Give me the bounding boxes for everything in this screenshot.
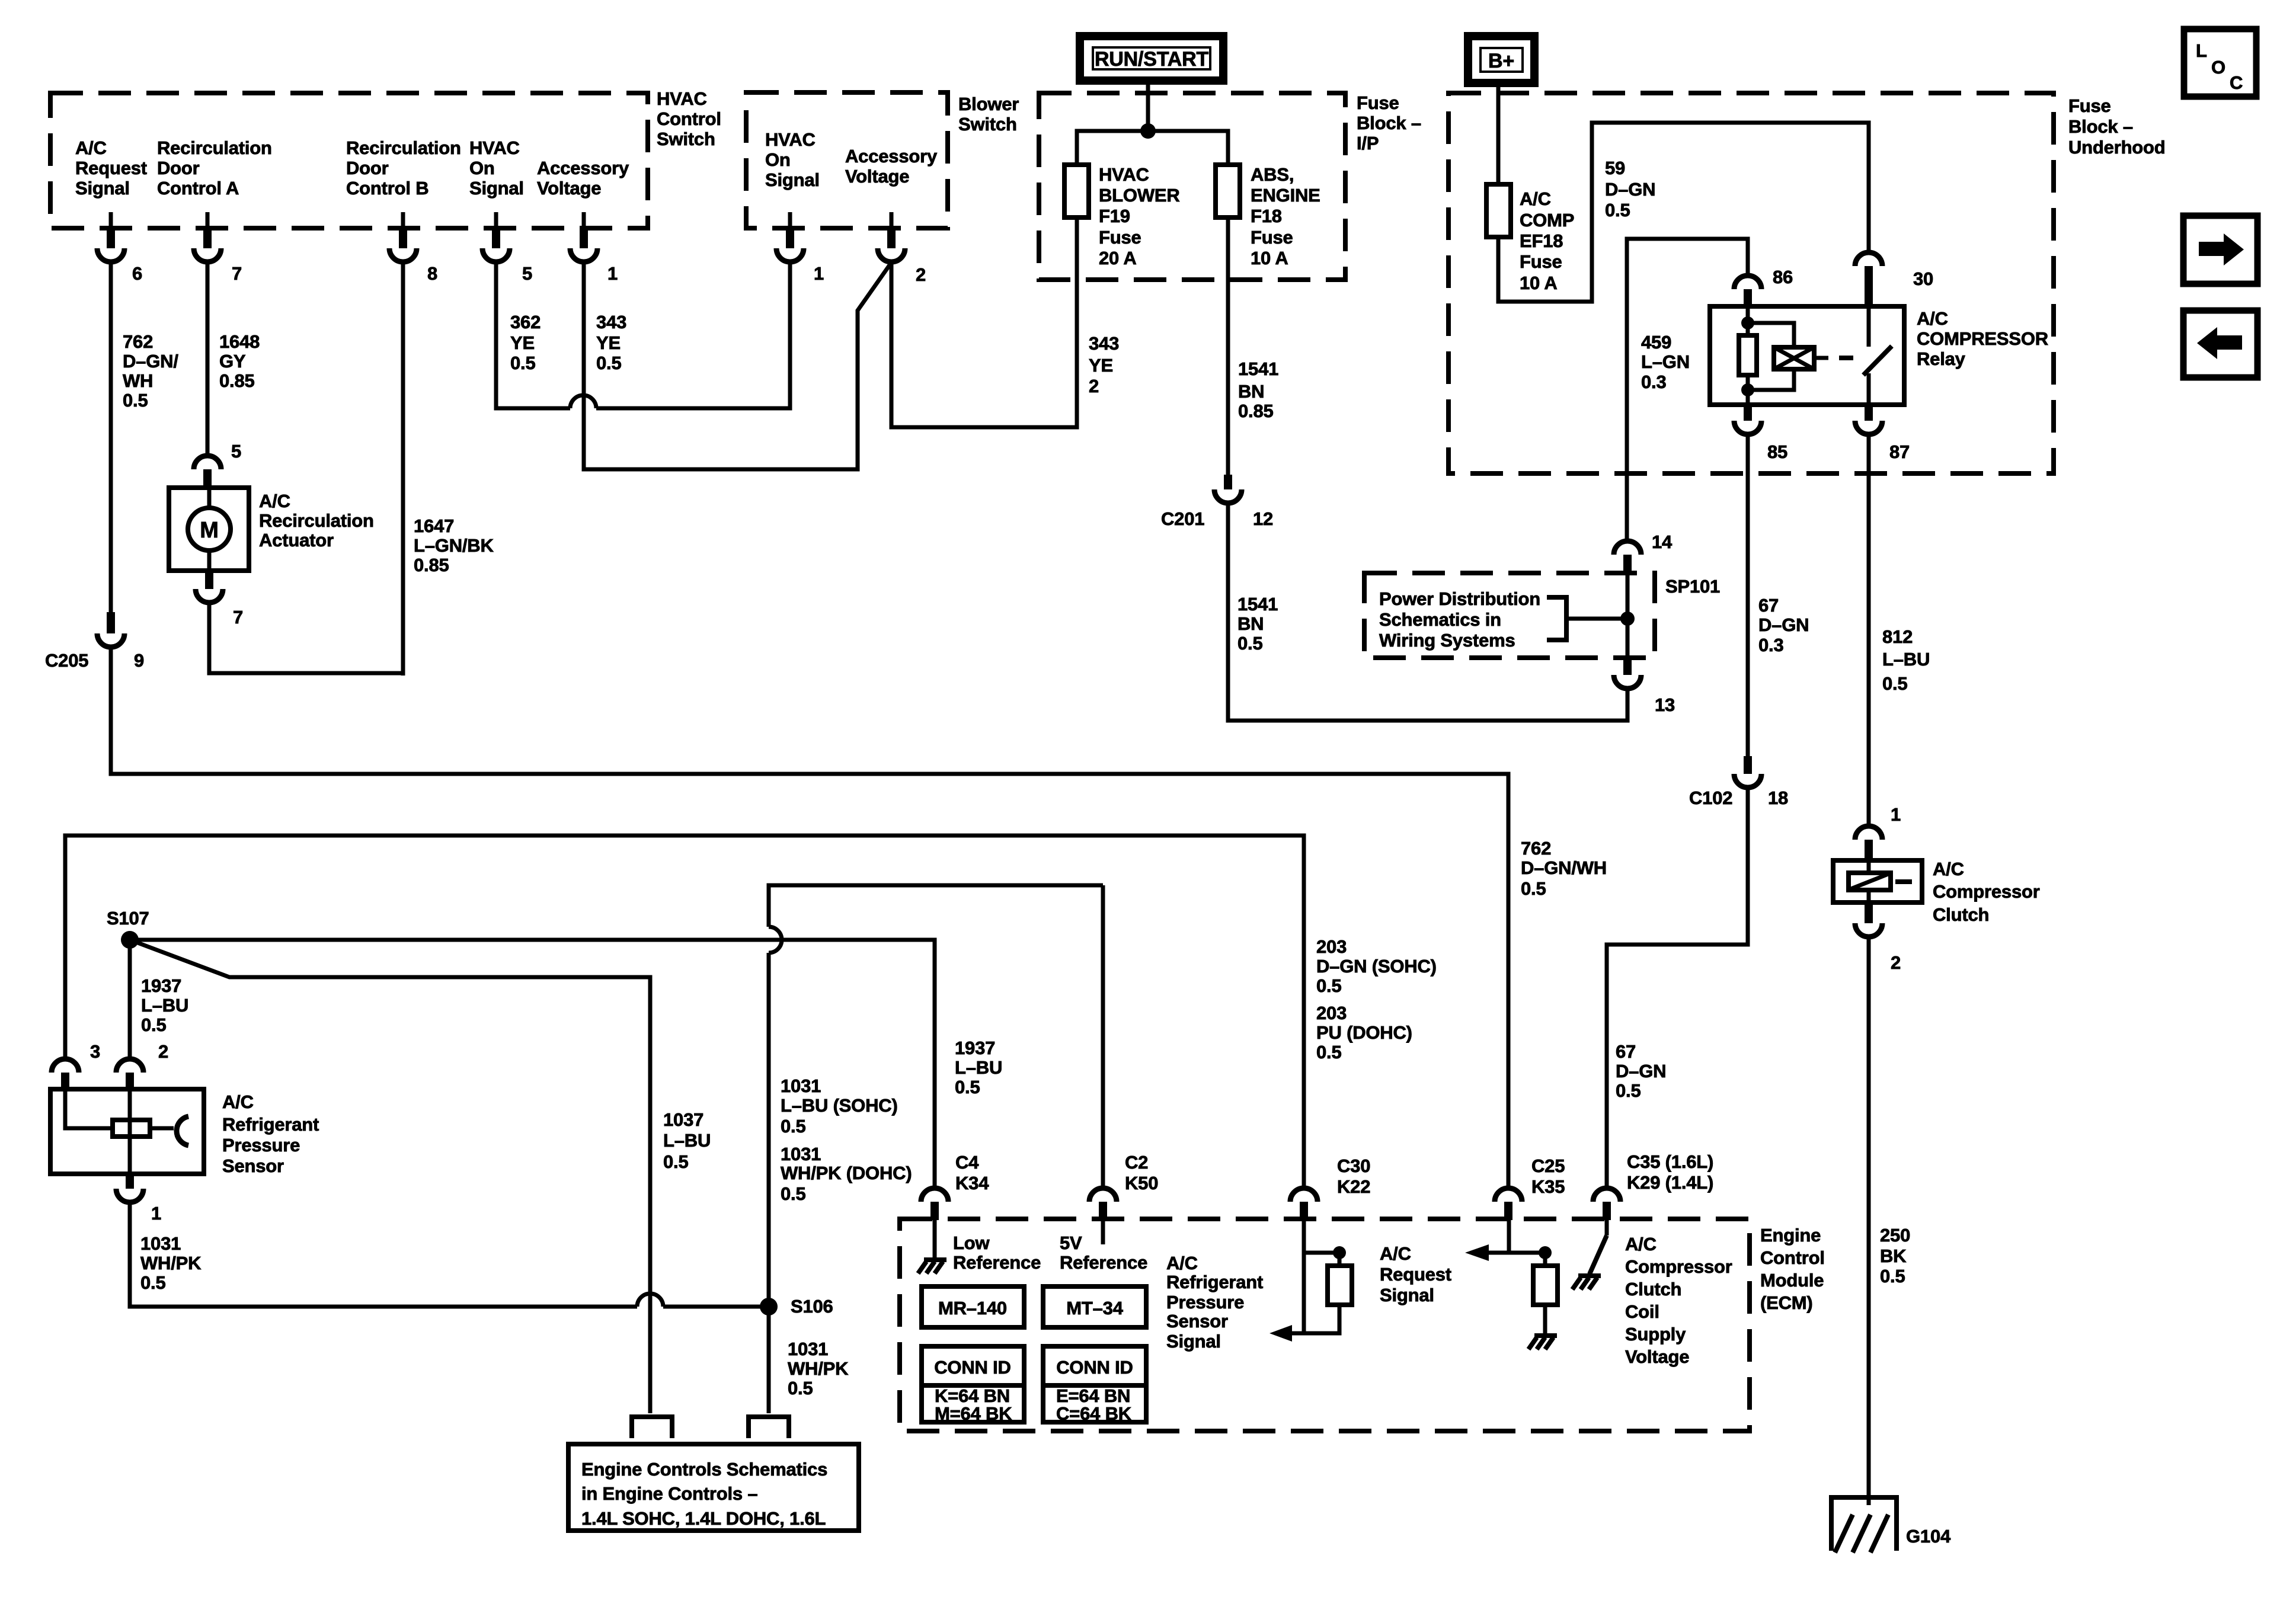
ECM connector C2 K50 <box>1089 1188 1117 1202</box>
pin 7 connector <box>203 228 212 248</box>
svg-text:Accessory: Accessory <box>537 158 629 178</box>
svg-text:0.5: 0.5 <box>140 1272 166 1293</box>
svg-text:F18: F18 <box>1251 206 1282 226</box>
svg-text:A/C: A/C <box>1933 859 1964 879</box>
svg-text:8: 8 <box>427 263 437 284</box>
svg-text:0.5: 0.5 <box>1882 673 1908 694</box>
wire 1031 sensor pin1 to S106 with hop <box>130 1202 637 1307</box>
pin 8 connector <box>399 228 407 248</box>
svg-text:A/C: A/C <box>1520 188 1551 209</box>
svg-text:343: 343 <box>1089 333 1119 354</box>
LOC box <box>2184 29 2256 97</box>
svg-text:18: 18 <box>1768 788 1788 808</box>
low reference ground <box>933 1220 937 1259</box>
svg-text:in Engine Controls –: in Engine Controls – <box>581 1483 757 1504</box>
ECM connector C25 K35 <box>1495 1188 1522 1202</box>
svg-text:0.5: 0.5 <box>955 1077 980 1097</box>
svg-text:MT–34: MT–34 <box>1066 1298 1123 1318</box>
svg-text:L–BU: L–BU <box>141 995 188 1016</box>
svg-text:WH/PK: WH/PK <box>140 1253 202 1273</box>
svg-text:Refrigerant: Refrigerant <box>222 1114 319 1135</box>
SP101 pin 13 connector <box>1623 658 1632 675</box>
C25 internal arrow resistor ground <box>1507 1219 1511 1253</box>
svg-text:WH/PK (DOHC): WH/PK (DOHC) <box>781 1163 912 1183</box>
svg-text:0.5: 0.5 <box>141 1014 167 1035</box>
SP101 pin 14 connector <box>1614 541 1641 555</box>
svg-text:Recirculation: Recirculation <box>259 510 374 531</box>
svg-text:A/C: A/C <box>1166 1253 1198 1273</box>
pin 1 connector <box>580 228 588 248</box>
svg-text:Signal: Signal <box>1166 1331 1221 1352</box>
svg-text:Switch: Switch <box>657 129 715 149</box>
svg-text:Low: Low <box>953 1233 990 1253</box>
wire C205 down and long horizontal to C25 drop <box>111 647 1508 1188</box>
svg-text:C: C <box>2230 72 2243 93</box>
sensor pin 2 connector <box>116 1059 143 1073</box>
svg-text:Clutch: Clutch <box>1933 904 1989 925</box>
relay switch dashes <box>1814 356 1828 360</box>
svg-text:12: 12 <box>1253 508 1273 529</box>
svg-text:M=64 BK: M=64 BK <box>935 1403 1012 1424</box>
svg-text:A/C: A/C <box>1917 308 1948 329</box>
relay pin 85 connector <box>1744 405 1752 421</box>
svg-text:Block –: Block – <box>2068 116 2133 137</box>
svg-text:0.85: 0.85 <box>1238 401 1274 421</box>
fuse F19 <box>1064 165 1089 217</box>
svg-text:A/C: A/C <box>1380 1243 1411 1264</box>
svg-text:0.85: 0.85 <box>219 370 255 391</box>
svg-text:D–GN: D–GN <box>1616 1061 1666 1081</box>
svg-text:Fuse: Fuse <box>1099 227 1141 248</box>
svg-text:Reference: Reference <box>953 1252 1041 1273</box>
A/C Compressor Clutch box <box>1833 860 1922 902</box>
svg-text:Request: Request <box>75 158 147 178</box>
svg-text:HVAC: HVAC <box>1099 164 1149 185</box>
svg-text:C4: C4 <box>955 1152 979 1173</box>
wire 1541 C201 down to SP101 pin13 <box>1228 503 1627 721</box>
node S107 <box>121 931 139 949</box>
svg-text:Control A: Control A <box>157 178 239 199</box>
svg-text:YE: YE <box>1089 355 1113 376</box>
svg-text:Engine Controls Schematics: Engine Controls Schematics <box>581 1459 827 1480</box>
svg-text:YE: YE <box>596 332 621 353</box>
svg-text:362: 362 <box>510 312 541 332</box>
svg-text:CONN ID: CONN ID <box>934 1357 1011 1378</box>
svg-text:C25: C25 <box>1531 1156 1565 1176</box>
svg-text:C201: C201 <box>1161 508 1204 529</box>
svg-text:Schematics in: Schematics in <box>1379 609 1501 630</box>
svg-text:5: 5 <box>522 263 532 284</box>
svg-text:1541: 1541 <box>1237 594 1278 614</box>
svg-text:COMP: COMP <box>1520 210 1574 231</box>
Blower Switch dashed box <box>746 92 948 228</box>
ECM connector C30 K22 <box>1290 1188 1318 1202</box>
svg-text:Signal: Signal <box>1380 1285 1434 1305</box>
svg-text:On: On <box>469 158 495 178</box>
blower pin 1 connector <box>786 228 794 248</box>
CONN ID box right <box>1043 1346 1146 1385</box>
svg-text:B+: B+ <box>1488 50 1514 72</box>
sensor internals <box>65 1089 113 1128</box>
svg-text:D–GN: D–GN <box>1758 614 1809 635</box>
svg-text:HVAC: HVAC <box>765 129 816 150</box>
svg-text:C35 (1.6L): C35 (1.6L) <box>1627 1151 1713 1172</box>
svg-text:Fuse: Fuse <box>2068 95 2111 116</box>
SP101 bracket <box>1547 597 1566 640</box>
wire 1648 pin7 to actuator pin5 <box>206 262 210 456</box>
svg-text:RUN/START: RUN/START <box>1095 48 1209 71</box>
svg-text:1648: 1648 <box>219 331 260 352</box>
svg-text:0.5: 0.5 <box>788 1378 813 1398</box>
sensor pin 1 connector <box>126 1174 134 1189</box>
svg-text:D–GN: D–GN <box>1605 179 1655 200</box>
svg-text:WH/PK: WH/PK <box>788 1358 849 1379</box>
svg-text:D–GN (SOHC): D–GN (SOHC) <box>1316 956 1437 977</box>
wire 1541 F18 down to C201 <box>1226 217 1230 475</box>
svg-text:Compressor: Compressor <box>1625 1256 1732 1277</box>
svg-text:Recirculation: Recirculation <box>346 137 461 158</box>
wire 362 pin5 right with hop to blower pin1 <box>496 262 570 408</box>
svg-text:D–GN/WH: D–GN/WH <box>1521 857 1607 878</box>
Fuse Block I/P dashed box <box>1039 93 1345 280</box>
svg-text:On: On <box>765 149 791 170</box>
svg-text:20 A: 20 A <box>1099 248 1137 268</box>
relay pin 30 connector <box>1855 252 1882 266</box>
svg-text:COMPRESSOR: COMPRESSOR <box>1917 328 2048 349</box>
svg-text:Fuse: Fuse <box>1520 251 1562 272</box>
svg-text:Recirculation: Recirculation <box>157 137 272 158</box>
svg-text:ABS,: ABS, <box>1251 164 1294 185</box>
svg-text:Actuator: Actuator <box>259 530 334 550</box>
clutch pin 1 connector <box>1855 826 1882 840</box>
wire 812 relay pin87 down to clutch <box>1867 434 1871 826</box>
svg-text:L: L <box>2196 40 2207 61</box>
svg-text:BN: BN <box>1238 381 1264 402</box>
svg-text:I/P: I/P <box>1357 133 1379 153</box>
pin inner leads <box>109 212 113 231</box>
svg-text:Block –: Block – <box>1357 113 1421 133</box>
svg-text:L–BU (SOHC): L–BU (SOHC) <box>781 1095 898 1116</box>
svg-text:343: 343 <box>596 312 626 332</box>
svg-text:1937: 1937 <box>955 1038 995 1058</box>
svg-text:Control: Control <box>1760 1247 1825 1268</box>
svg-text:Underhood: Underhood <box>2068 137 2166 158</box>
svg-text:1.4L SOHC, 1.4L DOHC, 1.6L: 1.4L SOHC, 1.4L DOHC, 1.6L <box>581 1508 826 1529</box>
svg-text:YE: YE <box>510 332 535 353</box>
svg-text:A/C: A/C <box>75 137 107 158</box>
fuse EF18 <box>1486 184 1511 237</box>
svg-text:Signal: Signal <box>75 178 130 199</box>
wire 1031 horizontal C2 to S106 drop with hop <box>769 885 1103 927</box>
ECM dashed box <box>900 1219 1750 1431</box>
wire RUN/START down <box>1146 81 1150 131</box>
svg-text:0.5: 0.5 <box>1605 200 1630 220</box>
svg-text:85: 85 <box>1767 441 1787 462</box>
svg-text:Fuse: Fuse <box>1357 92 1399 113</box>
wire S107 diagonal to 1037 drop <box>130 940 650 1413</box>
svg-text:67: 67 <box>1616 1041 1636 1062</box>
svg-text:SP101: SP101 <box>1665 576 1720 597</box>
svg-text:Reference: Reference <box>1060 1252 1147 1273</box>
svg-text:Blower: Blower <box>958 94 1019 114</box>
svg-text:1031: 1031 <box>781 1076 821 1096</box>
SP101 splice wire <box>1626 573 1630 658</box>
svg-text:S107: S107 <box>107 908 149 929</box>
actuator pin 7 connector <box>205 571 213 589</box>
engine controls connector cap left <box>632 1417 672 1438</box>
wire 1937 S107 down to sensor pin 2 <box>128 940 132 1059</box>
svg-text:Accessory: Accessory <box>845 146 938 167</box>
svg-text:C30: C30 <box>1337 1156 1370 1176</box>
wire low reference horizontal pin3 to C30 drop <box>65 836 1304 1188</box>
svg-text:2: 2 <box>1891 952 1901 973</box>
svg-text:C205: C205 <box>45 650 88 671</box>
RUN/START symbol <box>1080 36 1223 81</box>
connector C205 <box>107 612 115 633</box>
B+ symbol <box>1468 36 1534 83</box>
connector C102 <box>1744 756 1752 774</box>
svg-text:1031: 1031 <box>788 1339 828 1359</box>
node S106 <box>760 1298 778 1315</box>
MT-34 box <box>1043 1286 1146 1327</box>
connector C201 <box>1224 475 1232 489</box>
svg-text:2: 2 <box>916 264 926 285</box>
svg-text:K29 (1.4L): K29 (1.4L) <box>1627 1172 1713 1193</box>
wire S107 to C4 drop <box>130 940 935 1188</box>
svg-text:1: 1 <box>814 263 824 284</box>
svg-text:0.85: 0.85 <box>414 555 449 575</box>
svg-text:Power Distribution: Power Distribution <box>1379 588 1540 609</box>
svg-text:762: 762 <box>123 331 153 352</box>
svg-text:Signal: Signal <box>469 178 524 199</box>
MR-140 box <box>922 1286 1024 1327</box>
svg-text:BLOWER: BLOWER <box>1099 185 1180 206</box>
wire B+ down to EF18 <box>1496 83 1501 184</box>
svg-text:0.3: 0.3 <box>1641 372 1667 392</box>
C35 internal switch and ground <box>1605 1220 1609 1235</box>
clutch coil symbol <box>1867 860 1871 873</box>
svg-text:1031: 1031 <box>781 1144 821 1164</box>
wire actuator pin7 to pin8 wire <box>209 603 402 673</box>
svg-text:M: M <box>200 518 218 543</box>
Fuse Block Underhood dashed box <box>1448 93 2054 473</box>
svg-text:203: 203 <box>1316 1003 1347 1023</box>
wire 250 BK down to G104 <box>1867 937 1871 1505</box>
fuse F18 <box>1216 165 1240 217</box>
junction node <box>1140 123 1156 139</box>
wire 67 C102 down to ECM C35 <box>1607 788 1748 1188</box>
wire fuse feed horizontal <box>1077 131 1228 165</box>
svg-text:Fuse: Fuse <box>1251 227 1293 248</box>
HVAC Control Switch dashed box <box>50 93 648 228</box>
Engine Controls Schematics box <box>568 1444 859 1531</box>
svg-text:Voltage: Voltage <box>1625 1346 1689 1367</box>
svg-text:14: 14 <box>1652 532 1673 552</box>
svg-text:Coil: Coil <box>1625 1301 1659 1322</box>
A/C Refrigerant Pressure Sensor pin 3 connector <box>52 1059 79 1073</box>
svg-text:G104: G104 <box>1906 1526 1951 1547</box>
svg-text:67: 67 <box>1758 595 1779 616</box>
svg-text:GY: GY <box>219 351 246 372</box>
svg-text:0.5: 0.5 <box>1880 1266 1905 1286</box>
svg-text:A/C: A/C <box>222 1092 254 1112</box>
svg-text:459: 459 <box>1641 332 1671 353</box>
A/C Refrigerant Pressure Sensor box <box>50 1089 204 1174</box>
svg-text:1541: 1541 <box>1238 359 1278 379</box>
svg-text:Door: Door <box>346 158 389 178</box>
svg-text:7: 7 <box>233 607 243 628</box>
svg-text:O: O <box>2211 57 2225 78</box>
svg-text:Compressor: Compressor <box>1933 881 2040 902</box>
svg-text:86: 86 <box>1773 267 1793 287</box>
svg-text:BK: BK <box>1880 1246 1907 1266</box>
svg-text:1937: 1937 <box>141 975 181 996</box>
blower pin 2 connector <box>887 228 896 248</box>
svg-text:762: 762 <box>1521 838 1551 859</box>
svg-text:2: 2 <box>158 1041 168 1062</box>
svg-text:Sensor: Sensor <box>1166 1311 1228 1331</box>
svg-text:Clutch: Clutch <box>1625 1279 1681 1299</box>
svg-text:59: 59 <box>1605 158 1625 178</box>
svg-text:0.5: 0.5 <box>123 390 148 411</box>
svg-text:Relay: Relay <box>1917 348 1966 369</box>
svg-text:10 A: 10 A <box>1251 248 1288 268</box>
svg-text:1037: 1037 <box>663 1109 703 1130</box>
svg-text:Door: Door <box>157 158 200 178</box>
svg-text:C=64 BK: C=64 BK <box>1056 1403 1132 1424</box>
svg-text:A/C: A/C <box>1625 1234 1657 1254</box>
actuator pin 5 connector <box>194 456 221 469</box>
wire 343 blower pin2 to fuse F19 <box>891 217 1077 427</box>
svg-text:BN: BN <box>1237 613 1264 634</box>
arrow right box <box>2183 216 2257 284</box>
svg-text:7: 7 <box>232 263 242 284</box>
svg-text:5: 5 <box>231 441 241 462</box>
svg-text:WH: WH <box>123 370 153 391</box>
svg-text:3: 3 <box>90 1041 100 1062</box>
5V reference stub <box>1101 1220 1105 1244</box>
svg-text:0.5: 0.5 <box>781 1183 806 1204</box>
svg-text:Pressure: Pressure <box>1166 1292 1244 1313</box>
svg-text:K22: K22 <box>1337 1176 1370 1197</box>
wire 67 relay pin85 down to C102 <box>1746 434 1750 756</box>
svg-text:0.5: 0.5 <box>1521 878 1546 899</box>
svg-text:5V: 5V <box>1060 1233 1082 1253</box>
svg-text:MR–140: MR–140 <box>938 1298 1007 1318</box>
pin 6 connector <box>107 228 115 248</box>
svg-text:K34: K34 <box>955 1173 989 1193</box>
svg-text:1: 1 <box>1891 804 1901 825</box>
relay pin 87 connector <box>1865 405 1873 421</box>
clutch pin 2 connector <box>1865 902 1873 923</box>
relay coil <box>1748 323 1794 347</box>
svg-text:D–GN/: D–GN/ <box>123 351 178 372</box>
svg-text:L–BU: L–BU <box>1882 649 1930 670</box>
svg-text:CONN ID: CONN ID <box>1056 1357 1133 1378</box>
svg-text:EF18: EF18 <box>1520 231 1563 251</box>
svg-text:K35: K35 <box>1531 1176 1565 1197</box>
svg-text:1031: 1031 <box>140 1233 181 1254</box>
A/C Recirculation Actuator box <box>169 488 249 571</box>
ECM connector C35 K29 <box>1593 1188 1620 1202</box>
svg-text:0.5: 0.5 <box>1237 633 1263 654</box>
relay pin 86 connector <box>1734 276 1761 289</box>
wire 343 pin1 down right and diagonal to blower pin2 <box>584 262 891 469</box>
wire 1031 S106 down <box>767 1307 771 1413</box>
relay switch blade <box>1867 306 1871 347</box>
svg-text:Voltage: Voltage <box>537 178 601 199</box>
svg-text:0.3: 0.3 <box>1758 635 1784 655</box>
relay coil resistor branch <box>1746 306 1750 335</box>
svg-text:0.5: 0.5 <box>1316 975 1342 996</box>
svg-text:HVAC: HVAC <box>469 137 520 158</box>
pin 5 connector <box>492 228 500 248</box>
svg-text:Switch: Switch <box>958 114 1017 135</box>
svg-text:F19: F19 <box>1099 206 1130 226</box>
svg-text:Sensor: Sensor <box>222 1156 284 1176</box>
svg-text:10 A: 10 A <box>1520 273 1558 293</box>
svg-text:0.5: 0.5 <box>1316 1042 1342 1062</box>
svg-text:L–BU: L–BU <box>955 1057 1002 1078</box>
svg-text:Wiring Systems: Wiring Systems <box>1379 630 1515 651</box>
svg-text:Module: Module <box>1760 1270 1824 1291</box>
engine controls connector cap right <box>749 1417 789 1438</box>
svg-text:9: 9 <box>134 650 144 671</box>
svg-text:K50: K50 <box>1125 1173 1158 1193</box>
svg-text:ENGINE: ENGINE <box>1251 185 1320 206</box>
svg-text:2: 2 <box>1089 376 1099 396</box>
svg-text:PU (DOHC): PU (DOHC) <box>1316 1022 1412 1043</box>
svg-text:250: 250 <box>1880 1225 1910 1246</box>
ECM connector C4 K34 <box>921 1188 948 1202</box>
svg-text:Control B: Control B <box>346 178 428 199</box>
svg-text:13: 13 <box>1655 694 1675 715</box>
motor M circle <box>188 508 231 550</box>
svg-text:L–GN: L–GN <box>1641 351 1690 372</box>
svg-text:1647: 1647 <box>414 516 454 536</box>
svg-text:(ECM): (ECM) <box>1760 1292 1813 1313</box>
svg-text:S106: S106 <box>791 1296 833 1317</box>
wire 1647 pin8 down <box>401 262 405 676</box>
svg-text:87: 87 <box>1889 441 1910 462</box>
svg-text:HVAC: HVAC <box>657 88 707 109</box>
svg-text:Refrigerant: Refrigerant <box>1166 1272 1263 1292</box>
ground G104 <box>1831 1497 1897 1551</box>
svg-text:C2: C2 <box>1125 1152 1148 1173</box>
A/C COMPRESSOR Relay box <box>1710 306 1904 405</box>
svg-text:L–BU: L–BU <box>663 1130 711 1151</box>
Power Distribution dashed box <box>1364 573 1655 658</box>
svg-text:6: 6 <box>132 263 142 284</box>
wire 59 EF18 to relay pin30 <box>1498 123 1869 302</box>
svg-text:203: 203 <box>1316 936 1347 957</box>
svg-text:30: 30 <box>1913 268 1933 289</box>
svg-text:1: 1 <box>151 1203 161 1224</box>
wire 762 pin6 to C205 <box>109 262 113 612</box>
svg-text:812: 812 <box>1882 626 1913 647</box>
arrow left box <box>2183 311 2257 377</box>
svg-text:Engine: Engine <box>1760 1225 1821 1246</box>
svg-text:Control: Control <box>657 108 721 129</box>
svg-text:0.5: 0.5 <box>510 353 536 373</box>
svg-text:C102: C102 <box>1689 788 1732 808</box>
svg-text:0.5: 0.5 <box>781 1116 806 1137</box>
svg-text:Supply: Supply <box>1625 1324 1686 1345</box>
wire 459 horizontal to relay pin86 <box>1627 239 1748 541</box>
svg-text:Voltage: Voltage <box>845 166 909 187</box>
svg-text:0.5: 0.5 <box>1616 1080 1641 1101</box>
svg-text:Pressure: Pressure <box>222 1135 300 1156</box>
